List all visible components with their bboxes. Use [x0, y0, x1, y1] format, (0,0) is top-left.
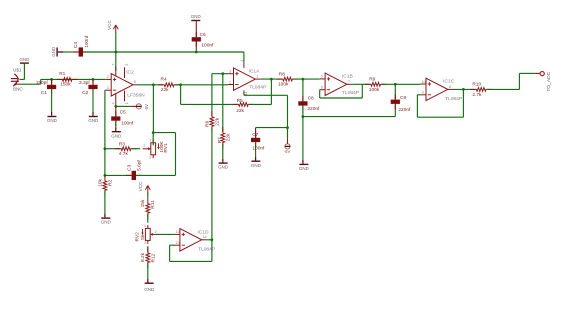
svg-text:GND: GND: [51, 46, 56, 57]
svg-text:TL084P: TL084P: [445, 96, 462, 102]
svg-text:IC1A: IC1A: [249, 69, 261, 75]
svg-text:R9: R9: [369, 77, 375, 83]
svg-text:TL084P: TL084P: [342, 90, 359, 96]
svg-text:GND: GND: [251, 163, 262, 168]
svg-text:IC2: IC2: [126, 69, 134, 75]
svg-text:GND: GND: [191, 14, 202, 19]
svg-text:5: 5: [125, 64, 129, 66]
svg-text:7: 7: [348, 80, 350, 84]
svg-text:C3: C3: [127, 164, 133, 170]
svg-text:C4: C4: [73, 42, 79, 48]
svg-text:IC1C: IC1C: [443, 79, 455, 85]
svg-text:220nf: 220nf: [307, 106, 320, 112]
svg-text:8.2k: 8.2k: [140, 252, 146, 262]
svg-text:VCC: VCC: [107, 20, 112, 30]
svg-text:3: 3: [149, 155, 151, 159]
svg-text:TL084P: TL084P: [198, 247, 215, 253]
svg-text:1: 1: [125, 102, 129, 104]
svg-text:12: 12: [176, 230, 180, 234]
svg-text:GND: GND: [218, 165, 229, 170]
svg-text:2: 2: [143, 144, 145, 148]
svg-text:R2: R2: [108, 179, 114, 185]
svg-text:100nf: 100nf: [201, 42, 214, 48]
svg-text:C7: C7: [252, 132, 258, 138]
svg-text:R1: R1: [59, 71, 65, 77]
svg-text:C6: C6: [200, 32, 206, 38]
svg-text:GND: GND: [111, 133, 122, 138]
svg-text:100nf: 100nf: [121, 120, 134, 126]
svg-text:RV1: RV1: [163, 143, 169, 153]
svg-text:2: 2: [155, 230, 157, 234]
svg-text:IC1B: IC1B: [342, 73, 353, 79]
svg-text:LF356N: LF356N: [127, 92, 145, 98]
svg-text:C8: C8: [308, 96, 314, 102]
svg-text:1: 1: [144, 224, 146, 228]
svg-text:R11: R11: [150, 200, 156, 209]
svg-text:R10: R10: [472, 81, 481, 87]
svg-text:C9: C9: [400, 95, 406, 101]
svg-text:5k: 5k: [140, 234, 146, 240]
svg-text:GND: GND: [88, 118, 99, 123]
svg-text:GND: GND: [144, 287, 155, 292]
svg-text:R3: R3: [119, 142, 125, 148]
svg-text:14: 14: [203, 235, 207, 239]
svg-text:100k: 100k: [278, 82, 289, 88]
svg-text:22k: 22k: [215, 117, 221, 125]
svg-text:R8: R8: [279, 71, 285, 77]
svg-text:220nf: 220nf: [398, 107, 411, 113]
svg-text:2: 2: [107, 75, 109, 79]
svg-text:GND: GND: [101, 220, 112, 225]
svg-text:6: 6: [321, 86, 323, 90]
svg-text:3: 3: [107, 86, 109, 90]
svg-text:2.7k: 2.7k: [472, 92, 482, 98]
svg-text:C1: C1: [41, 90, 47, 96]
svg-text:1: 1: [256, 75, 258, 79]
svg-text:R7: R7: [217, 137, 223, 143]
svg-text:4.7k: 4.7k: [119, 151, 129, 157]
svg-text:4: 4: [112, 102, 116, 104]
svg-text:R6: R6: [205, 120, 211, 126]
svg-text:BNC: BNC: [13, 86, 23, 91]
svg-text:5.6pf: 5.6pf: [137, 160, 143, 171]
svg-text:15k: 15k: [140, 199, 146, 207]
svg-text:5: 5: [321, 75, 323, 79]
svg-text:22k: 22k: [236, 108, 244, 114]
svg-text:-5V: -5V: [284, 149, 291, 154]
svg-text:10: 10: [422, 80, 426, 84]
svg-text:11: 11: [244, 91, 248, 95]
svg-text:GND: GND: [47, 118, 58, 123]
svg-text:TL084P: TL084P: [249, 85, 266, 91]
svg-text:C2: C2: [82, 90, 88, 96]
svg-text:GND: GND: [299, 166, 310, 171]
svg-text:22k: 22k: [161, 87, 169, 93]
svg-text:100nf: 100nf: [84, 35, 90, 48]
svg-text:150pf: 150pf: [36, 80, 49, 86]
svg-text:9: 9: [422, 91, 424, 95]
svg-text:R4: R4: [161, 77, 167, 83]
svg-text:C5: C5: [120, 109, 126, 115]
svg-text:6: 6: [134, 80, 136, 84]
svg-text:R5: R5: [237, 98, 243, 104]
svg-text:100k: 100k: [369, 87, 380, 93]
svg-text:3: 3: [229, 70, 231, 74]
svg-text:TO_ADC: TO_ADC: [546, 71, 552, 91]
svg-text:R12: R12: [151, 253, 157, 262]
svg-text:3: 3: [144, 241, 146, 245]
svg-text:100nf: 100nf: [252, 145, 265, 151]
svg-text:7: 7: [112, 64, 116, 66]
svg-text:1: 1: [149, 138, 151, 142]
svg-text:VCC: VCC: [138, 181, 143, 191]
svg-text:2: 2: [229, 80, 231, 84]
svg-text:150k: 150k: [60, 81, 71, 87]
svg-text:U$1: U$1: [13, 67, 22, 72]
svg-text:8: 8: [449, 85, 451, 89]
svg-text:RV2: RV2: [135, 232, 141, 242]
svg-text:10k: 10k: [98, 178, 104, 186]
svg-text:4: 4: [240, 60, 244, 62]
svg-text:GND: GND: [19, 57, 30, 62]
svg-text:13: 13: [176, 241, 180, 245]
svg-text:22k: 22k: [226, 133, 232, 141]
svg-text:-5V: -5V: [144, 104, 149, 111]
